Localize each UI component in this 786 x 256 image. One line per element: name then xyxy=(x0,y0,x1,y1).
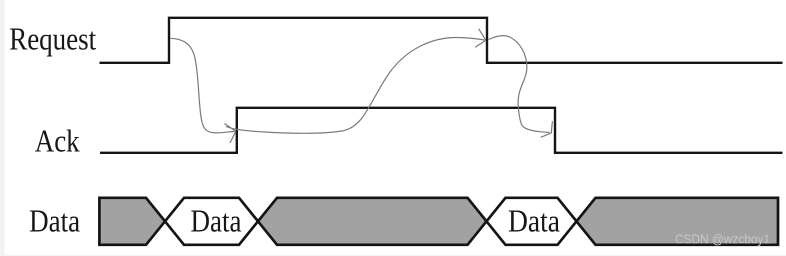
causality arrow: Request fall to Ack fall xyxy=(489,36,553,138)
svg-text:Data: Data xyxy=(191,203,242,238)
svg-text:Data: Data xyxy=(508,203,560,238)
svg-text:Request: Request xyxy=(9,21,96,56)
svg-text:CSDN @wzcboy1: CSDN @wzcboy1 xyxy=(675,231,770,246)
data bus segment 4 (Data, white) xyxy=(487,198,577,245)
causality arrow: Ack rise to Request fall xyxy=(226,29,486,134)
data bus segment 5 (valid, gray) xyxy=(577,198,779,245)
causality arrow: Request rise to Ack rise xyxy=(171,38,236,143)
data bus segment 1 (valid, gray) xyxy=(99,198,165,245)
svg-text:Data: Data xyxy=(29,203,80,238)
wire: Ack waveform xyxy=(100,108,783,153)
page edge left xyxy=(0,0,5,256)
data bus segment 2 (Data, white) xyxy=(165,198,258,245)
wire: Request waveform xyxy=(100,18,783,63)
page edge bottom xyxy=(0,255,786,256)
svg-text:Ack: Ack xyxy=(35,123,80,158)
data bus segment 3 (valid, gray) xyxy=(258,198,487,245)
